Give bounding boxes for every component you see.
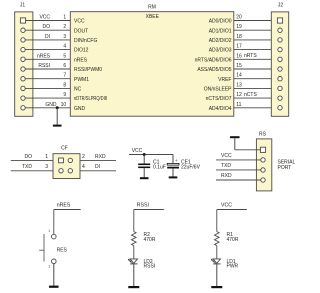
svg-text:GND: GND <box>45 102 57 108</box>
svg-text:RES: RES <box>57 248 68 254</box>
svg-text:10: 10 <box>61 102 67 108</box>
svg-text:DI: DI <box>95 164 100 170</box>
svg-text:1: 1 <box>45 154 48 160</box>
svg-text:RSSI: RSSI <box>137 203 149 209</box>
svg-text:PWR: PWR <box>227 264 239 270</box>
svg-text:4: 4 <box>63 44 66 50</box>
svg-text:6: 6 <box>63 63 66 69</box>
svg-text:5: 5 <box>63 53 66 59</box>
svg-text:nRTS/AD6/DIO6: nRTS/AD6/DIO6 <box>195 57 232 63</box>
svg-text:14: 14 <box>236 73 242 79</box>
svg-text:16: 16 <box>236 53 242 59</box>
svg-text:VCC: VCC <box>132 148 143 154</box>
svg-text:NC: NC <box>74 87 82 93</box>
svg-text:J1: J1 <box>20 2 26 8</box>
svg-text:nCTS/DIO7: nCTS/DIO7 <box>206 96 232 102</box>
svg-text:2: 2 <box>82 154 85 160</box>
svg-text:AD4/DIO4: AD4/DIO4 <box>209 106 232 112</box>
svg-text:1: 1 <box>48 229 50 233</box>
svg-text:0.1uF: 0.1uF <box>153 165 166 171</box>
svg-text:RXD: RXD <box>221 173 232 179</box>
svg-text:nRES: nRES <box>74 57 88 63</box>
svg-text:15: 15 <box>236 63 242 69</box>
svg-text:DO: DO <box>43 24 51 30</box>
svg-text:DI: DI <box>45 34 50 40</box>
svg-text:8: 8 <box>63 82 66 88</box>
svg-text:GND: GND <box>74 106 86 112</box>
svg-text:nRES: nRES <box>57 203 71 209</box>
svg-text:DIO12: DIO12 <box>74 48 89 54</box>
svg-text:XBEE: XBEE <box>146 14 160 20</box>
svg-text:VCC: VCC <box>221 153 232 159</box>
svg-text:DIN/nCFG: DIN/nCFG <box>74 38 97 44</box>
svg-text:RXD: RXD <box>95 154 106 160</box>
svg-text:2: 2 <box>63 24 66 30</box>
svg-text:7: 7 <box>63 73 66 79</box>
svg-text:ON/nSLEEP: ON/nSLEEP <box>204 87 232 93</box>
svg-text:PWM1: PWM1 <box>74 77 89 83</box>
svg-text:17: 17 <box>236 44 242 50</box>
svg-text:AD3/DIO3: AD3/DIO3 <box>209 48 232 54</box>
svg-text:12: 12 <box>236 92 242 98</box>
svg-text:+: + <box>175 158 178 163</box>
svg-text:nRTS: nRTS <box>244 53 257 59</box>
svg-text:J2: J2 <box>278 2 284 8</box>
svg-text:22uF/6V: 22uF/6V <box>181 165 201 171</box>
svg-text:TXD: TXD <box>221 163 231 169</box>
svg-text:4: 4 <box>82 164 85 170</box>
svg-text:11: 11 <box>236 102 241 108</box>
svg-text:DO: DO <box>25 154 33 160</box>
svg-text:470R: 470R <box>144 237 156 243</box>
svg-text:nRES: nRES <box>37 53 51 59</box>
svg-text:VCC: VCC <box>74 19 85 25</box>
svg-text:3: 3 <box>63 34 66 40</box>
svg-text:nCTS: nCTS <box>244 92 257 98</box>
svg-text:RSSI: RSSI <box>38 63 50 69</box>
svg-text:PORT: PORT <box>278 165 292 171</box>
svg-text:ASS/AD5/DIO5: ASS/AD5/DIO5 <box>197 67 231 73</box>
svg-text:VCC: VCC <box>39 15 50 21</box>
svg-text:1: 1 <box>48 265 50 269</box>
svg-text:RSSI/PWM0: RSSI/PWM0 <box>74 67 102 73</box>
svg-text:9: 9 <box>63 92 66 98</box>
svg-text:AD0/DIO0: AD0/DIO0 <box>209 19 232 25</box>
svg-text:DOUT: DOUT <box>74 28 88 34</box>
svg-text:18: 18 <box>236 34 242 40</box>
svg-text:13: 13 <box>236 82 242 88</box>
svg-text:RM: RM <box>148 5 156 11</box>
svg-text:1: 1 <box>63 15 66 21</box>
svg-text:CF: CF <box>61 145 68 151</box>
svg-text:nDTR/SLPRQ/DI8: nDTR/SLPRQ/DI8 <box>74 96 107 102</box>
svg-text:3: 3 <box>45 164 48 170</box>
svg-text:VREF: VREF <box>218 77 231 83</box>
svg-text:RSSI: RSSI <box>144 264 156 270</box>
svg-text:RS: RS <box>259 131 267 137</box>
svg-text:19: 19 <box>236 24 242 30</box>
svg-text:470R: 470R <box>227 237 239 243</box>
svg-text:AD1/DIO1: AD1/DIO1 <box>209 28 232 34</box>
svg-text:20: 20 <box>236 15 242 21</box>
svg-text:VCC: VCC <box>221 203 232 209</box>
svg-text:AD2/DIO2: AD2/DIO2 <box>209 38 232 44</box>
svg-text:TXD: TXD <box>22 164 32 170</box>
